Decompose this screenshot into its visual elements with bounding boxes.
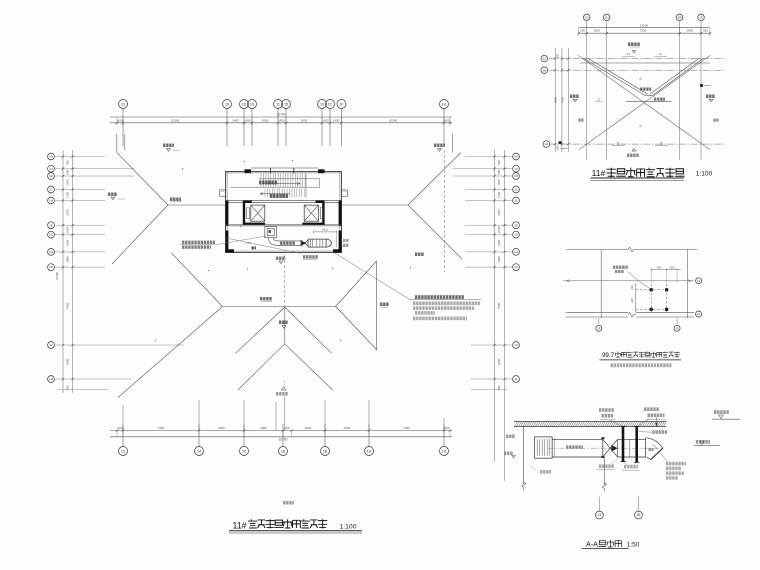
svg-text:12: 12 xyxy=(660,141,664,145)
svg-text:1J: 1J xyxy=(49,167,53,171)
svg-text:1A: 1A xyxy=(697,312,701,316)
svg-text:14: 14 xyxy=(697,279,701,283)
svg-text:600: 600 xyxy=(556,145,560,150)
svg-text:12: 12 xyxy=(661,98,665,102)
svg-text:1H: 1H xyxy=(49,174,53,178)
svg-text:10300: 10300 xyxy=(171,118,180,122)
svg-text:1150: 1150 xyxy=(497,192,501,199)
svg-text:12: 12 xyxy=(49,343,53,347)
svg-text:1:100: 1:100 xyxy=(696,170,713,177)
svg-text:600: 600 xyxy=(497,385,501,390)
svg-text:12: 12 xyxy=(639,77,643,81)
svg-text:3600: 3600 xyxy=(497,358,501,365)
svg-text:1K: 1K xyxy=(49,265,53,269)
svg-text:2600: 2600 xyxy=(593,29,600,33)
svg-text:11: 11 xyxy=(276,102,280,106)
svg-text:600: 600 xyxy=(444,118,449,122)
svg-text:1C: 1C xyxy=(328,102,333,106)
svg-text:1H: 1H xyxy=(544,142,548,146)
svg-text:11: 11 xyxy=(514,377,517,381)
svg-text:12: 12 xyxy=(543,57,547,61)
svg-text:1150: 1150 xyxy=(66,192,70,199)
svg-text:10300: 10300 xyxy=(389,118,398,122)
svg-text:7800: 7800 xyxy=(561,97,565,103)
svg-text:3450: 3450 xyxy=(497,209,501,216)
svg-text:12: 12 xyxy=(627,52,631,56)
svg-text:18: 18 xyxy=(281,449,285,453)
svg-text:4500: 4500 xyxy=(218,426,225,430)
svg-text:1E: 1E xyxy=(49,233,53,237)
svg-text:4500: 4500 xyxy=(344,426,351,430)
svg-text:1400: 1400 xyxy=(232,118,239,122)
svg-text:99.7: 99.7 xyxy=(602,352,615,359)
svg-text:600: 600 xyxy=(117,426,122,430)
svg-text:1K: 1K xyxy=(442,449,447,453)
svg-text:3450: 3450 xyxy=(66,209,70,216)
svg-text:2650: 2650 xyxy=(301,118,308,122)
svg-text:1E: 1E xyxy=(367,449,372,453)
svg-text:32700: 32700 xyxy=(279,437,288,441)
svg-text:1F: 1F xyxy=(514,223,518,227)
svg-text:19: 19 xyxy=(320,102,324,106)
svg-text:16: 16 xyxy=(225,102,229,106)
svg-text:15: 15 xyxy=(676,326,680,330)
svg-text:600: 600 xyxy=(66,160,70,165)
svg-text:500: 500 xyxy=(670,265,675,269)
svg-text:1300: 1300 xyxy=(66,179,70,186)
svg-text:11: 11 xyxy=(514,199,517,203)
svg-text:400: 400 xyxy=(245,118,250,122)
svg-text:12: 12 xyxy=(514,188,518,192)
svg-text:1F: 1F xyxy=(49,223,53,227)
svg-text:1H: 1H xyxy=(514,250,518,254)
svg-text:1000: 1000 xyxy=(497,256,501,263)
svg-text:2600: 2600 xyxy=(687,29,694,33)
svg-text:900: 900 xyxy=(497,169,501,174)
svg-text:600: 600 xyxy=(117,118,122,122)
svg-text:1H: 1H xyxy=(49,199,53,203)
svg-text:13: 13 xyxy=(514,167,518,171)
svg-text:900: 900 xyxy=(66,169,70,174)
svg-text:850: 850 xyxy=(284,426,289,430)
svg-text:1K: 1K xyxy=(442,102,447,106)
svg-text:600: 600 xyxy=(497,160,501,165)
svg-text:850: 850 xyxy=(279,118,284,122)
svg-text:1300: 1300 xyxy=(497,179,501,186)
svg-text:7500: 7500 xyxy=(66,302,70,309)
svg-text:17: 17 xyxy=(49,188,53,192)
svg-text:12: 12 xyxy=(639,124,643,128)
svg-text:200: 200 xyxy=(630,285,634,290)
svg-text:15: 15 xyxy=(284,102,288,106)
svg-text:23400: 23400 xyxy=(55,272,59,280)
svg-text:3850: 3850 xyxy=(260,426,267,430)
svg-text:1B: 1B xyxy=(678,15,682,19)
svg-text:11#: 11# xyxy=(592,168,606,178)
svg-text:15: 15 xyxy=(242,449,246,453)
svg-text:12900: 12900 xyxy=(640,23,649,27)
svg-text:14: 14 xyxy=(197,449,201,453)
svg-text:3600: 3600 xyxy=(66,358,70,365)
svg-text:2411: 2411 xyxy=(322,228,329,232)
svg-text:13: 13 xyxy=(597,326,601,330)
svg-text:1H: 1H xyxy=(605,15,609,19)
svg-text:2600: 2600 xyxy=(262,118,269,122)
svg-text:15: 15 xyxy=(699,15,703,19)
svg-text:1H: 1H xyxy=(514,155,518,159)
svg-text:1400: 1400 xyxy=(333,118,340,122)
svg-text:1A: 1A xyxy=(49,250,53,254)
svg-text:9600: 9600 xyxy=(554,97,558,103)
svg-text:32700: 32700 xyxy=(277,113,286,117)
svg-text:13: 13 xyxy=(598,513,602,517)
svg-text:600: 600 xyxy=(444,426,449,430)
svg-text:1B: 1B xyxy=(323,449,328,453)
svg-text:7250: 7250 xyxy=(158,426,165,430)
svg-text:1H: 1H xyxy=(49,377,53,381)
svg-text:13: 13 xyxy=(121,102,125,106)
svg-text:A-A: A-A xyxy=(586,542,598,549)
svg-text:400: 400 xyxy=(323,118,328,122)
svg-text:7500: 7500 xyxy=(497,302,501,309)
svg-text:1G: 1G xyxy=(250,102,255,106)
svg-text:600: 600 xyxy=(556,53,560,58)
svg-text:600: 600 xyxy=(580,29,585,33)
svg-text:1000: 1000 xyxy=(66,256,70,263)
svg-text:760: 760 xyxy=(657,265,662,269)
svg-text:13: 13 xyxy=(121,449,125,453)
svg-text:13: 13 xyxy=(514,265,518,269)
svg-text:12: 12 xyxy=(616,141,620,145)
svg-text:2300: 2300 xyxy=(497,226,501,233)
svg-text:7350: 7350 xyxy=(403,426,410,430)
svg-text:1:100: 1:100 xyxy=(339,523,356,530)
svg-text:600: 600 xyxy=(703,29,708,33)
svg-text:1H: 1H xyxy=(514,233,518,237)
svg-text:1600: 1600 xyxy=(66,240,70,247)
svg-text:3900: 3900 xyxy=(305,426,312,430)
svg-text:11#: 11# xyxy=(232,520,246,530)
svg-text:1E: 1E xyxy=(542,68,546,72)
svg-text:7300: 7300 xyxy=(640,29,647,33)
svg-text:12: 12 xyxy=(659,52,663,56)
svg-text:1B: 1B xyxy=(514,174,518,178)
svg-text:1A: 1A xyxy=(49,155,53,159)
svg-text:1:50: 1:50 xyxy=(627,541,640,548)
svg-text:12: 12 xyxy=(514,343,518,347)
svg-text:300: 300 xyxy=(630,298,634,303)
svg-text:2300: 2300 xyxy=(66,226,70,233)
svg-text:1D: 1D xyxy=(242,102,247,106)
svg-text:12: 12 xyxy=(597,98,601,102)
svg-text:1600: 1600 xyxy=(497,240,501,247)
